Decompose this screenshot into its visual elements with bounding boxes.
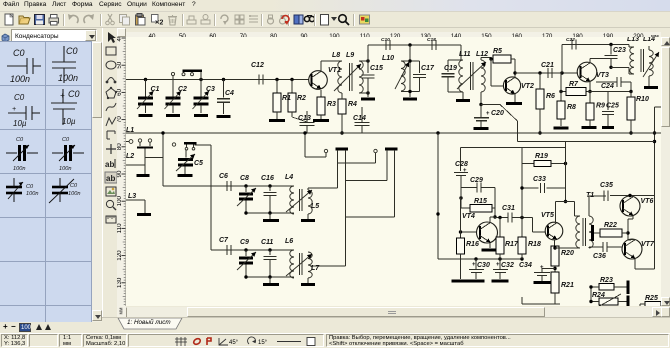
wire L11 to ground (462, 92, 464, 99)
wire SW-B right link (346, 216, 395, 218)
wire C3 lead (200, 80, 202, 98)
vertical scrollbar (661, 37, 670, 306)
ground under C25 (602, 126, 614, 129)
resistor R18 (518, 237, 526, 254)
wire R19 right (551, 163, 566, 165)
node C16 top (268, 184, 271, 187)
sheet tab row (102, 317, 670, 333)
toolbar rotate red (279, 13, 292, 26)
arrow L10 tuning (395, 62, 409, 89)
svg-text:R6: R6 (546, 93, 555, 100)
arrow R24 line (596, 294, 621, 308)
svg-text:L11: L11 (459, 51, 471, 58)
wire AF supply drop (517, 121, 519, 142)
capacitor C34 plate a (534, 272, 550, 274)
wire L9 top to C15 (359, 60, 368, 62)
wire L1 edge (126, 141, 129, 143)
wire T1 to emitter node (555, 247, 580, 249)
svg-text:L1: L1 (126, 127, 134, 134)
svg-text:R7: R7 (569, 81, 579, 88)
tool icon cursor (108, 32, 116, 43)
ground under L11 (456, 99, 470, 102)
wire R9 top (589, 92, 591, 104)
wire C20 bottom (480, 121, 482, 127)
wire R23 left (591, 286, 599, 288)
wire C11 top lead (269, 250, 271, 255)
tool icon curve (106, 103, 116, 111)
svg-text:C18: C18 (427, 37, 436, 43)
resistor R8 (557, 101, 565, 119)
wire rail to tank x410 (409, 45, 411, 97)
wire VT6-VT7 cascade (627, 219, 629, 240)
node R10 top (629, 90, 632, 93)
wire L14 bottom (648, 76, 650, 86)
capacitor C30 plate b (471, 272, 482, 274)
vertical ruler (117, 37, 126, 306)
toolbar components (358, 13, 371, 26)
toolbar save (33, 13, 46, 26)
wire loop to VT4 collector (494, 208, 496, 217)
capacitor C4 (217, 98, 230, 100)
wire R6 top (539, 73, 541, 89)
inductor L8 winding (338, 61, 342, 93)
svg-text:R19: R19 (535, 153, 548, 160)
svg-text:100n: 100n (13, 166, 25, 172)
core line L11L12 a (470, 62, 472, 90)
palette variable capacitor C0 100n (52, 187, 68, 193)
wire R9 bottom (589, 120, 591, 126)
capacitor C28 plate b (456, 175, 466, 177)
wire C9 top lead (245, 250, 247, 256)
wire L10-C17 top (401, 60, 420, 62)
svg-text:C0: C0 (26, 184, 34, 190)
ground under L14 (644, 86, 658, 89)
node R5 left (489, 57, 492, 60)
wire switch to x211 (195, 144, 212, 146)
wire to VT3 base (562, 72, 578, 74)
capacitor C19 (441, 73, 454, 75)
svg-text:100n: 100n (59, 166, 71, 172)
node C9 top (244, 248, 247, 251)
svg-text:R15: R15 (474, 198, 487, 205)
horizontal scrollbar (117, 307, 670, 317)
wire R24 right (618, 301, 627, 303)
component library icon (1, 30, 10, 40)
wire C29 right (481, 187, 495, 189)
wire loop left (460, 188, 462, 209)
inductor L4 winding (290, 186, 294, 214)
bar R23 right (627, 281, 630, 295)
transistor VT7 (622, 239, 642, 259)
transformer T1 secondary (589, 216, 593, 248)
wire filter II bottom (246, 276, 294, 278)
capacitor C10 (385, 40, 387, 50)
capacitor C16 (263, 192, 276, 194)
svg-text:C0: C0 (14, 93, 25, 102)
palette scrollbar (92, 41, 102, 322)
resistor R4 (338, 99, 346, 114)
toolbar paste (134, 13, 147, 26)
wire filter I input (163, 185, 294, 187)
wire C20 node right (481, 104, 500, 106)
capacitor C6 (226, 181, 228, 191)
transistor VT4 (477, 222, 498, 243)
svg-text:ab: ab (105, 160, 114, 169)
toolbar (0, 12, 670, 28)
trimmer capacitor C8 (239, 193, 253, 196)
wire C32 bottom (499, 273, 501, 280)
capacitor C32 plate a (493, 269, 508, 271)
wire L3 stub (144, 200, 146, 213)
svg-text:R10: R10 (636, 96, 649, 103)
ground under C32 (492, 280, 509, 283)
wire C24 right (621, 81, 631, 83)
svg-text:C0: C0 (13, 48, 25, 58)
bar R24 right (627, 296, 630, 307)
svg-text:C22: C22 (566, 37, 575, 43)
node C8 top (244, 184, 247, 187)
resistor R19 (534, 161, 551, 167)
wire to L13 bottom (611, 66, 629, 68)
svg-text:L6: L6 (285, 238, 293, 245)
svg-text:R17: R17 (505, 241, 519, 248)
toolbar stamp a (185, 13, 198, 26)
wire emitter to R20 (554, 240, 556, 247)
wire VT4 emitter down (489, 243, 491, 249)
wire loop node to R16 (460, 198, 462, 238)
capacitor C18 (431, 40, 433, 50)
wire R18 bottom (521, 254, 523, 259)
wire VT5 base (533, 231, 546, 233)
wire R2 to C13 (292, 117, 307, 122)
wire to L7 tap (310, 265, 346, 267)
wire C30 top (475, 259, 477, 269)
toolbar binoculars (303, 13, 316, 26)
node R6 top (538, 71, 541, 74)
arrow L11L12 tuning (457, 62, 486, 89)
wire VT3 collector up (589, 59, 591, 63)
ground under C20 (474, 127, 489, 130)
wire SW-A right pin down (345, 153, 347, 266)
ground under R3 (313, 119, 329, 122)
inductor L10 winding (401, 61, 405, 91)
node VT4 collector (493, 215, 496, 218)
svg-text:L7: L7 (311, 265, 320, 272)
status bar (0, 333, 670, 346)
svg-text:C29: C29 (470, 177, 483, 184)
svg-text:C21: C21 (541, 62, 554, 69)
wire L5 bottom (307, 214, 309, 219)
wire diagonal to AF block (500, 105, 518, 122)
node C1 top (144, 78, 147, 81)
wire AF supply rail (518, 141, 655, 143)
node R17 top (498, 216, 501, 219)
toolbar copy (118, 13, 131, 26)
transistor VT1 (309, 71, 328, 90)
svg-text:L14: L14 (643, 37, 655, 43)
wire C19-L11 bottom (448, 91, 463, 93)
wire x211 down to filter II (210, 145, 212, 250)
wire main bus (126, 132, 661, 134)
wire top-left bus (126, 79, 309, 81)
svg-text:C23: C23 (613, 47, 626, 54)
resistor R2 (288, 93, 296, 112)
wire VT6 emitter (632, 216, 634, 220)
svg-text:C30: C30 (477, 262, 490, 269)
core line L13L14 b (643, 49, 645, 72)
wire VT1 collector up (320, 61, 322, 71)
resistor R7 (566, 88, 586, 96)
core line L8L9 b (351, 63, 353, 91)
node R4-bus (340, 131, 343, 134)
wire R8 bottom (560, 119, 562, 126)
wire C16 ground stub (269, 213, 271, 219)
svg-text:+: + (463, 168, 467, 174)
node AF-base tee (436, 212, 439, 215)
wire C4 lead (223, 80, 225, 98)
horizontal ruler (126, 28, 661, 37)
wire C13 top (306, 111, 308, 123)
svg-text:C13: C13 (298, 115, 311, 122)
capacitor C17 (413, 74, 426, 76)
transistor VT5 (545, 222, 563, 240)
arrow L6L7 tuning (286, 254, 312, 276)
svg-text:C0: C0 (66, 46, 78, 56)
svg-text:C4: C4 (225, 90, 234, 97)
wire filter I bottom (246, 212, 294, 214)
toolbar lock a (264, 13, 277, 26)
toolbar print (47, 13, 60, 26)
svg-text:R24: R24 (592, 292, 605, 299)
palette trimmer capacitor C0 100n (6, 187, 22, 193)
node bus-AF (436, 131, 439, 134)
node R7 left (559, 90, 562, 93)
toolbar zoom (337, 13, 350, 26)
wire VT7 collector (628, 239, 635, 242)
capacitor C7 (226, 245, 228, 255)
wire R23R24 left tie (590, 287, 592, 302)
wire C16 top lead (269, 186, 271, 191)
wire L10-C17 bottom (401, 91, 420, 93)
switch contact SW-A (324, 149, 327, 152)
svg-text:10µ: 10µ (13, 119, 27, 128)
svg-text:C0: C0 (16, 137, 24, 143)
wire C25 bottom (607, 115, 609, 127)
svg-text:L10: L10 (382, 55, 394, 62)
svg-text:15°: 15° (258, 340, 268, 346)
ground under L5 (301, 219, 315, 222)
wire C33 right (547, 187, 566, 189)
drawing tool strip (102, 28, 117, 333)
inductor L11 winding (459, 60, 463, 92)
tool icon polygon (106, 87, 117, 99)
wire SW-B left pin down (386, 153, 388, 180)
node VT6 collector (628, 194, 631, 197)
resistor R5 (493, 55, 511, 63)
tool icon picture (106, 187, 116, 196)
wire VT2 emitter down (514, 94, 516, 102)
svg-text:100n: 100n (68, 191, 80, 197)
node VT3 emitter (588, 90, 591, 93)
wire C34 bottom (541, 276, 543, 282)
wire SW-B ring link (338, 162, 376, 164)
wire C13 bottom (306, 126, 308, 134)
wire AF ground rail (438, 258, 523, 260)
svg-text:45°: 45° (229, 340, 239, 346)
bar R22 left (591, 225, 594, 241)
svg-text:C7: C7 (219, 237, 229, 244)
ground VT2 emitter (506, 102, 522, 105)
svg-text:T1: T1 (586, 192, 594, 199)
wire L9 bottom (359, 92, 368, 94)
wire R25 left (640, 303, 645, 305)
wire collector to C23 (590, 58, 611, 60)
svg-text:R3: R3 (327, 101, 336, 108)
core line L13L14 a (640, 49, 642, 72)
wire loop right (494, 188, 496, 209)
resistor R20 (551, 246, 559, 266)
svg-text:C20: C20 (491, 110, 504, 117)
schematic canvas (126, 37, 661, 306)
svg-text:R2: R2 (297, 95, 306, 102)
wire R5 left lead (491, 58, 493, 60)
svg-text:C9: C9 (240, 239, 249, 246)
wire block corner (521, 297, 523, 304)
toolbar stamp b (199, 13, 212, 26)
core line L8L9 a (349, 63, 351, 91)
core line L11L12 b (472, 62, 474, 90)
svg-text:L13: L13 (627, 37, 639, 43)
svg-text:C32: C32 (501, 262, 514, 269)
arrow L4L5 tuning (286, 190, 312, 212)
wire C17 top (419, 61, 421, 73)
wire R22 left (594, 232, 600, 234)
svg-text:VT3: VT3 (596, 72, 609, 79)
svg-text:C0: C0 (70, 183, 78, 189)
bar under L3 (137, 213, 151, 216)
wire x522 drop (521, 148, 523, 218)
wire C34 top link (542, 268, 555, 270)
tool icon measure (106, 216, 116, 223)
resistor R1 (273, 93, 281, 112)
wire L2 edge (126, 164, 145, 166)
ground under C11 (263, 283, 279, 286)
node rail-L10 (408, 43, 411, 46)
svg-text:C12: C12 (251, 62, 264, 69)
svg-text:C19: C19 (444, 65, 457, 72)
svg-text:L3: L3 (128, 193, 136, 200)
wire L1 contact down (144, 149, 146, 165)
capacitor C21 (547, 68, 549, 78)
node edge-rail (653, 140, 656, 143)
capacitor C12 (258, 74, 260, 84)
toolbar duplicate x2 (150, 13, 163, 26)
node C30 (474, 257, 477, 260)
wire C36 to VT7 base (607, 246, 622, 248)
wire R16 bottom (460, 254, 462, 279)
wire C16 bottom (269, 196, 271, 214)
ground under L10 tank (403, 98, 417, 101)
wire C14 top (361, 107, 363, 123)
inductor L6 winding (290, 250, 294, 278)
wire R25 down (639, 304, 641, 306)
svg-text:C1: C1 (151, 86, 160, 93)
svg-text:C15: C15 (370, 65, 383, 72)
svg-text:L5: L5 (311, 203, 319, 210)
wire VT6 collector rail (610, 195, 655, 197)
resistor R25 (645, 302, 661, 307)
wire to L5 top (308, 187, 338, 189)
resistor R3 (317, 97, 325, 115)
svg-text:C16: C16 (261, 175, 274, 182)
svg-text:R4: R4 (348, 101, 357, 108)
toolbar redo (82, 13, 95, 26)
wire T1 primary bottom (579, 247, 581, 249)
ground under C16 (263, 219, 279, 222)
switch contact S1 above C2/C3 (171, 72, 174, 75)
wire R23 right (614, 286, 627, 288)
wire C24 to R10 (630, 82, 632, 92)
wire C32 top (499, 259, 501, 269)
wire C29 left (461, 187, 477, 189)
node bus-x163 (161, 131, 164, 134)
combo Конденсаторы (11, 29, 97, 42)
wire R22 right (622, 232, 628, 234)
toolbar list (247, 13, 260, 26)
wire R20-R21 (554, 266, 556, 272)
svg-text:C24: C24 (601, 83, 614, 90)
arrow L8L9 tuning (334, 64, 361, 91)
capacitor C14 (355, 122, 370, 124)
svg-text:C2: C2 (178, 86, 187, 93)
arrow L13L14 tuning (643, 52, 659, 77)
node C15 top (366, 59, 369, 62)
toolbar lock b (276, 13, 289, 26)
trimmer capacitor C9 (239, 257, 253, 260)
resistor R6 (536, 89, 544, 109)
wire R4 bottom (341, 114, 343, 133)
tool icon bracket (107, 131, 115, 139)
variable capacitor C2 (166, 96, 181, 99)
wire R15 right (492, 207, 495, 209)
wire SW-B left link (346, 180, 388, 182)
wire R17 top (499, 218, 501, 238)
wire right edge rail (654, 107, 656, 269)
wire R2 bottom (291, 112, 293, 117)
resistor R23 (599, 284, 614, 291)
node C33 left (520, 186, 523, 189)
switch contact above C5 (172, 143, 175, 146)
wire SW-A left pin down (337, 153, 339, 188)
svg-text:VT4: VT4 (462, 213, 475, 220)
wire C23 top lead (610, 45, 612, 55)
inductor L13 winding (630, 47, 634, 74)
capacitor C32 plate b (495, 272, 506, 274)
svg-text:C10: C10 (381, 37, 390, 43)
resistor R21 (551, 272, 559, 293)
svg-text:C34: C34 (519, 262, 532, 269)
svg-text:VT2: VT2 (521, 83, 534, 90)
capacitor C28 plate a (454, 172, 468, 174)
wire C20 top (480, 105, 482, 118)
capacitor C33 (540, 183, 542, 193)
component palette (0, 41, 92, 322)
palette zoom controls (0, 322, 102, 333)
wire C19 bottom (447, 77, 449, 92)
node edge-bus (653, 131, 656, 134)
node C4 top (222, 78, 225, 81)
wire C15 from top rail (367, 45, 369, 73)
